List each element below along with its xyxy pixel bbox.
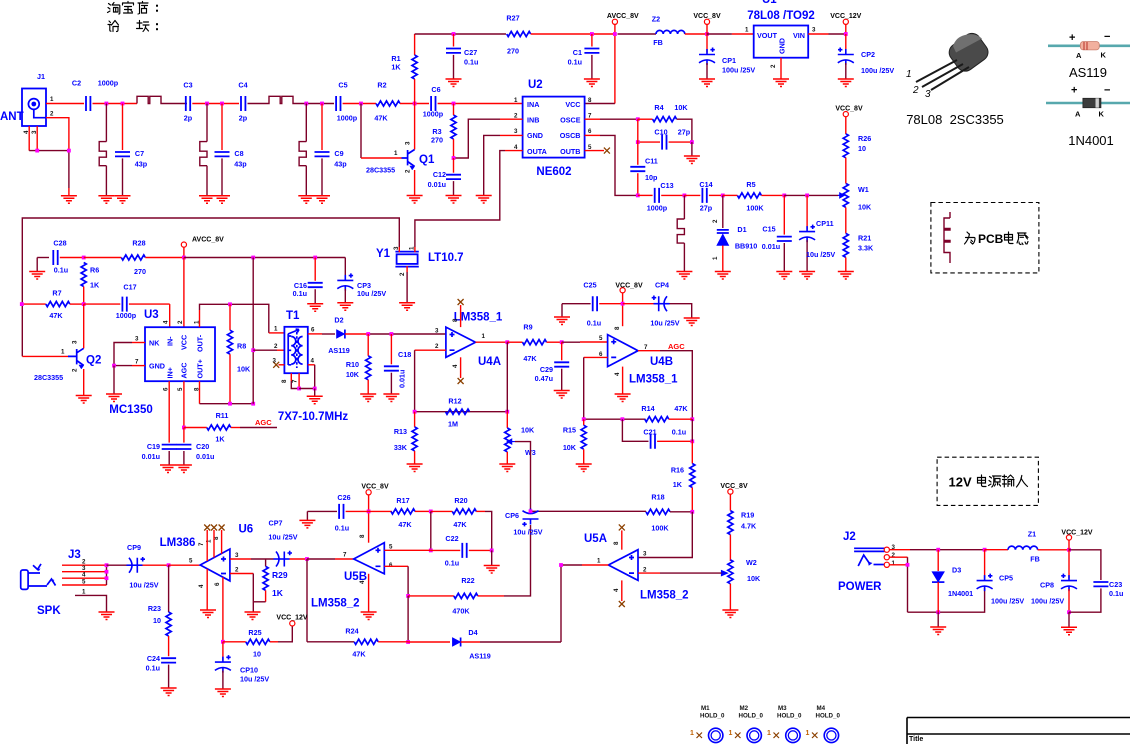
wire IF line left (Y1 pin3 to Q2 stage): [22, 218, 399, 356]
svg-text:VCC_12V: VCC_12V: [276, 615, 307, 622]
svg-text:R8: R8: [237, 342, 246, 351]
svg-text:2: 2: [405, 169, 412, 173]
resistor R9: [507, 341, 522, 343]
svg-text:27p: 27p: [678, 128, 691, 137]
svg-text:8: 8: [613, 541, 620, 545]
svg-text:100u /25V: 100u /25V: [1031, 597, 1064, 606]
svg-text:43p: 43p: [234, 160, 247, 169]
svg-text:C8: C8: [234, 149, 243, 158]
no-connect X pin5 OUTB: [585, 150, 604, 152]
resistor R8: [229, 304, 231, 330]
svg-text:7: 7: [343, 552, 347, 559]
diode D2 AS119: [328, 316, 350, 356]
svg-text:R11: R11: [216, 411, 229, 420]
wire LM386 pin2: [230, 573, 253, 575]
capacitor C16: [314, 258, 316, 281]
svg-text:R17: R17: [396, 496, 409, 505]
svg-text:M3: M3: [778, 705, 787, 712]
svg-text:R19: R19: [741, 511, 754, 520]
capacitor C8: [221, 104, 223, 151]
capacitor C5: [336, 96, 340, 111]
svg-text:2: 2: [274, 343, 278, 350]
ground L5: [298, 196, 314, 204]
wire U5B pin5: [384, 549, 431, 551]
capacitor C27: [453, 34, 455, 47]
svg-text:VIN: VIN: [793, 31, 805, 40]
capacitor CP11: [806, 195, 808, 229]
svg-text:J3: J3: [68, 549, 81, 561]
diode D4 AS119: [408, 641, 450, 643]
svg-text:VCC_8V: VCC_8V: [720, 483, 748, 490]
capacitor C18: [390, 334, 392, 364]
svg-text:10u /25V: 10u /25V: [268, 533, 297, 542]
ground 78L08: [773, 79, 789, 87]
svg-text:Q2: Q2: [86, 355, 101, 367]
svg-text:D2: D2: [334, 316, 343, 325]
svg-text:HOLD_0: HOLD_0: [777, 713, 802, 720]
no-connect T1 pin3: [279, 364, 285, 366]
svg-text:R10: R10: [346, 360, 359, 369]
svg-text:OUT-: OUT-: [196, 334, 205, 352]
wire VCC pin8 NE602: [585, 103, 615, 105]
wire U4B pin4 ground: [622, 367, 624, 394]
svg-text:3: 3: [135, 336, 139, 343]
ground CP4: [684, 318, 700, 326]
svg-text:Title: Title: [909, 736, 923, 743]
ground C18: [383, 394, 399, 402]
svg-text:C27: C27: [464, 48, 477, 57]
wire to CP11: [784, 194, 838, 196]
svg-text:LM358_2: LM358_2: [311, 598, 360, 610]
resistor R5: [723, 194, 738, 196]
svg-text:3: 3: [273, 358, 277, 365]
svg-text:33K: 33K: [394, 443, 408, 452]
svg-text:CP11: CP11: [816, 219, 834, 228]
svg-text:LM358_1: LM358_1: [629, 374, 678, 386]
no-connect U5A pin4: [621, 580, 623, 601]
resistor R23: [168, 565, 170, 612]
ground T1: [314, 389, 316, 397]
svg-text:1: 1: [50, 96, 54, 103]
svg-text:0.01u: 0.01u: [428, 180, 446, 189]
power AVCC_8V: [612, 19, 617, 24]
svg-text:0.01u: 0.01u: [142, 452, 160, 461]
svg-text:47K: 47K: [398, 520, 412, 529]
resistor R15: [583, 419, 585, 425]
wire W3 wiper to CP6 node: [515, 442, 531, 512]
capacitor C28: [37, 257, 49, 259]
capacitor C22: [431, 549, 460, 551]
svg-text:R26: R26: [858, 134, 871, 143]
wire NK pin3 loop: [132, 342, 145, 344]
svg-text:0.1u: 0.1u: [335, 524, 349, 533]
svg-text:3.3K: 3.3K: [858, 244, 874, 253]
wire GND pin7: [132, 365, 145, 367]
svg-text:K: K: [1101, 51, 1107, 60]
svg-text:100K: 100K: [746, 204, 764, 213]
svg-text:10u /25V: 10u /25V: [357, 289, 386, 298]
bottom rail CP5: [908, 588, 985, 612]
svg-text:Z1: Z1: [1028, 530, 1036, 539]
ground C20: [176, 465, 192, 473]
svg-text:R6: R6: [90, 266, 99, 275]
svg-text:6: 6: [163, 387, 170, 391]
capacitor CP7: [274, 551, 293, 567]
svg-text:VCC_12V: VCC_12V: [830, 13, 861, 20]
svg-text:0.01u: 0.01u: [196, 452, 214, 461]
svg-text:2: 2: [514, 113, 518, 120]
wire U4A out: [476, 341, 508, 343]
svg-text:0.1u: 0.1u: [568, 58, 582, 67]
wire AVCC to Z2: [618, 33, 657, 35]
svg-text:10: 10: [153, 616, 161, 625]
ground D3: [937, 612, 939, 627]
svg-text:R29: R29: [272, 570, 288, 580]
svg-text:C26: C26: [337, 493, 350, 502]
svg-text:GND: GND: [527, 131, 543, 140]
svg-text:R5: R5: [746, 180, 755, 189]
svg-text:27p: 27p: [700, 204, 713, 213]
svg-text:U5A: U5A: [584, 533, 607, 545]
svg-text:10K: 10K: [521, 426, 535, 435]
wire OSCB pin6: [585, 134, 600, 136]
wire J1 bottom rail: [29, 151, 69, 188]
svg-text:2: 2: [892, 552, 896, 559]
svg-text:6: 6: [311, 327, 315, 334]
svg-text:0.47u: 0.47u: [535, 374, 553, 383]
ground Q1: [407, 196, 423, 204]
transistor Q1: [402, 141, 435, 173]
svg-text:10K: 10K: [674, 103, 688, 112]
resistor R29: [265, 559, 267, 566]
svg-text:R25: R25: [248, 628, 261, 637]
svg-text:AS119: AS119: [328, 346, 350, 355]
svg-text:7: 7: [135, 359, 139, 366]
capacitor C4: [241, 96, 245, 111]
svg-text:0.01u: 0.01u: [398, 370, 407, 388]
svg-text:Y1: Y1: [376, 248, 391, 260]
svg-text:7X7-10.7MHz: 7X7-10.7MHz: [278, 411, 349, 423]
op IC U2 NE602: [514, 79, 592, 178]
mounting hole M4: [806, 705, 841, 743]
capacitor CP5: [984, 550, 986, 579]
text taobao shop: [108, 2, 159, 15]
wire Q2 emitter to ground: [83, 369, 85, 396]
svg-text:12V: 12V: [949, 475, 972, 490]
resistor R13: [414, 412, 416, 427]
svg-text:R16: R16: [671, 466, 684, 475]
resistor R10: [367, 334, 369, 356]
resistor R22: [408, 595, 454, 597]
svg-text:CP8: CP8: [1040, 581, 1054, 590]
svg-text:VCC_12V: VCC_12V: [1061, 530, 1092, 537]
resistor R18: [531, 510, 647, 512]
inductor L2 (PCB) series: [248, 96, 335, 103]
svg-text:VCC_8V: VCC_8V: [615, 283, 643, 290]
capacitor CP3: [344, 258, 346, 279]
svg-text:HOLD_0: HOLD_0: [816, 713, 841, 720]
ground CP10: [215, 689, 231, 697]
svg-text:AS119: AS119: [1069, 65, 1107, 80]
svg-text:4: 4: [82, 572, 86, 579]
capacitor C3: [186, 96, 190, 111]
svg-text:FB: FB: [653, 38, 663, 47]
ground CP3: [337, 303, 353, 311]
svg-text:J2: J2: [843, 531, 856, 543]
svg-text:1K: 1K: [215, 435, 225, 444]
diode D3 1N4001: [937, 550, 939, 571]
wire Y1 pin stubs: [399, 247, 415, 272]
svg-text:47K: 47K: [374, 114, 388, 123]
wire R12 node: [415, 411, 508, 413]
resistor R12: [446, 409, 470, 414]
wire J1 pin1 to C2: [46, 103, 84, 105]
svg-text:IN+: IN+: [166, 367, 175, 378]
svg-text:C2: C2: [72, 79, 81, 88]
power VCC_8V R19: [728, 489, 733, 494]
svg-text:10u /25V: 10u /25V: [240, 675, 269, 684]
no-connect U5A pin8: [621, 530, 623, 549]
svg-text:R20: R20: [454, 496, 467, 505]
resistor R2: [376, 101, 400, 106]
J3 tie rail: [106, 565, 108, 585]
svg-text:IN-: IN-: [166, 336, 175, 346]
ground C12: [446, 196, 462, 204]
power VCC_8V C26: [366, 490, 371, 495]
svg-text:A: A: [1075, 110, 1081, 119]
ground C25 left: [561, 304, 563, 317]
svg-text:R9: R9: [523, 323, 532, 332]
svg-text:6: 6: [389, 562, 393, 569]
capacitor C13: [638, 194, 653, 196]
svg-text:C23: C23: [1109, 580, 1122, 589]
wire Q1 base: [360, 104, 362, 159]
svg-text:−: −: [1104, 85, 1110, 97]
svg-text:10K: 10K: [346, 370, 360, 379]
ground CP2: [838, 79, 854, 87]
svg-text:R28: R28: [132, 239, 145, 248]
wire R17/R20 node down to pin5: [430, 511, 432, 550]
svg-text:3: 3: [71, 340, 78, 344]
wire U4B pin6: [584, 356, 608, 358]
svg-text:47K: 47K: [49, 311, 63, 320]
svg-text:C19: C19: [147, 442, 160, 451]
mounting hole M2: [729, 705, 764, 743]
wire J1 pin2 down: [46, 118, 69, 151]
svg-text:2: 2: [235, 567, 239, 574]
svg-text:M1: M1: [701, 705, 710, 712]
svg-text:43p: 43p: [334, 160, 347, 169]
capacitor CP8: [1068, 550, 1070, 579]
svg-text:1: 1: [394, 150, 398, 157]
svg-text:1: 1: [514, 97, 518, 104]
capacitor C9: [321, 104, 323, 151]
resistor R17: [369, 510, 392, 512]
svg-text:OUTB: OUTB: [560, 147, 580, 156]
capacitor C12: [453, 158, 455, 173]
svg-text:2: 2: [712, 219, 719, 223]
svg-text:W2: W2: [746, 558, 757, 567]
wire U4B out AGC: [638, 350, 660, 352]
ground W3: [499, 464, 515, 472]
connector J3 SPK: [21, 549, 81, 617]
ground W2: [729, 584, 731, 610]
svg-text:C9: C9: [334, 149, 343, 158]
svg-text:C11: C11: [645, 157, 658, 166]
svg-text:28C3355: 28C3355: [366, 166, 395, 175]
power VCC_12V: [843, 19, 848, 24]
wire AGC pin5 down: [183, 381, 185, 427]
ground R10: [360, 394, 376, 402]
regulator U1 78L08: [747, 0, 815, 58]
svg-text:C28: C28: [53, 239, 66, 248]
resistor R27: [507, 31, 531, 36]
svg-text:78L08 2SC3355: 78L08 2SC3355: [906, 112, 1004, 127]
svg-text:C21: C21: [643, 428, 656, 437]
svg-text:+: +: [1071, 85, 1077, 97]
ground MC1350: [113, 366, 115, 394]
svg-text:D4: D4: [468, 628, 477, 637]
IC U3 MC1350: [109, 309, 215, 416]
T1 bottom pins: [290, 373, 292, 381]
svg-text:100u /25V: 100u /25V: [991, 597, 1024, 606]
svg-text:C25: C25: [583, 281, 596, 290]
svg-text:7: 7: [644, 344, 648, 351]
svg-text:3: 3: [235, 552, 239, 559]
ground J3: [99, 612, 115, 620]
ground R15: [576, 464, 592, 472]
wire OUT+ pin8 rail: [199, 381, 201, 404]
ground C24: [161, 688, 177, 696]
wire T1 pin4: [308, 364, 315, 366]
svg-text:7: 7: [292, 379, 299, 383]
svg-text:470K: 470K: [452, 607, 470, 616]
capacitor C14: [684, 194, 700, 196]
svg-text:1: 1: [892, 560, 896, 567]
wire C6 to NE602 INA: [438, 103, 523, 105]
svg-text:8: 8: [614, 326, 621, 330]
svg-text:C22: C22: [445, 534, 458, 543]
svg-text:1: 1: [712, 256, 719, 260]
svg-text:C5: C5: [338, 81, 347, 90]
wire OSCE pin7: [585, 118, 600, 120]
wire U5B pin4 ground: [368, 574, 370, 612]
resistor R16: [691, 419, 693, 441]
svg-text:VCC: VCC: [180, 335, 189, 350]
wire to 78L08 pin1: [707, 33, 732, 35]
wire U5A out: [582, 564, 608, 566]
svg-text:R2: R2: [377, 81, 386, 90]
svg-text:U6: U6: [239, 524, 254, 536]
svg-text:1: 1: [906, 69, 912, 80]
svg-text:R14: R14: [641, 404, 654, 413]
wire VCC pin2 MC1350: [183, 258, 185, 328]
resistor R7: [22, 303, 46, 305]
svg-text:OSCB: OSCB: [560, 131, 581, 140]
svg-text:270: 270: [431, 136, 443, 145]
svg-text:10K: 10K: [563, 443, 577, 452]
svg-text:2: 2: [399, 272, 406, 276]
svg-text:0.1u: 0.1u: [146, 664, 160, 673]
svg-text:C29: C29: [540, 365, 553, 374]
svg-text:R12: R12: [448, 397, 461, 406]
ground L6: [676, 272, 692, 280]
svg-text:C4: C4: [238, 81, 247, 90]
svg-text:PCB: PCB: [978, 232, 1004, 246]
svg-text:2: 2: [71, 368, 78, 372]
svg-text:C20: C20: [196, 442, 209, 451]
wire J2 pin1: [889, 564, 907, 566]
resistor R25: [223, 641, 246, 643]
ground LM386 pin2: [245, 612, 261, 620]
svg-text:−: −: [1104, 31, 1110, 43]
capacitor C11: [637, 119, 639, 165]
svg-text:0.1u: 0.1u: [464, 58, 478, 67]
resistor R3: [451, 115, 456, 139]
wire J1 pins 3,4: [29, 126, 37, 151]
svg-text:2p: 2p: [184, 114, 193, 123]
wire R27 to AVCC: [531, 33, 615, 35]
svg-text:OUTA: OUTA: [527, 147, 547, 156]
svg-text:M4: M4: [817, 705, 826, 712]
svg-text:VCC: VCC: [565, 100, 580, 109]
svg-text:1000p: 1000p: [337, 114, 358, 123]
svg-text:AVCC_8V: AVCC_8V: [192, 237, 224, 244]
wire U5B pin6 feedback: [384, 565, 408, 567]
svg-text:LT10.7: LT10.7: [428, 252, 464, 264]
svg-text:INA: INA: [527, 100, 539, 109]
svg-text:MC1350: MC1350: [109, 404, 152, 416]
ground C15: [776, 272, 792, 280]
wire U4A pin2: [415, 349, 446, 351]
J3 pin wires: [62, 565, 107, 585]
svg-text:R15: R15: [563, 426, 576, 435]
op-amp U6 LM386: [160, 524, 254, 589]
no-connect LM386 pins 7,1,8: [207, 530, 221, 561]
transistor Q2: [61, 340, 101, 372]
wire R3 bottom to INB: [454, 119, 501, 158]
svg-text:10u /25V: 10u /25V: [513, 528, 542, 537]
svg-text:C15: C15: [762, 225, 775, 234]
svg-text:R23: R23: [148, 604, 161, 613]
svg-text:R7: R7: [52, 289, 61, 298]
svg-text:28C3355: 28C3355: [34, 373, 63, 382]
svg-text:C10: C10: [654, 128, 667, 137]
svg-text:NE602: NE602: [536, 166, 571, 178]
svg-text:CP9: CP9: [127, 543, 141, 552]
ground L3: [98, 196, 114, 204]
ground C1: [584, 79, 600, 87]
svg-text:4: 4: [452, 364, 459, 368]
capacitor CP6: [522, 509, 538, 527]
wire U5B pin8 to VCC rail: [368, 511, 370, 542]
ground C26: [306, 511, 308, 520]
svg-text:1M: 1M: [448, 420, 458, 429]
svg-text:0.1u: 0.1u: [445, 559, 459, 568]
ground J1: [68, 188, 70, 196]
svg-text:3: 3: [812, 27, 816, 34]
ceramic filter Y1 LT10.7: [376, 246, 464, 276]
capacitor C26: [307, 510, 337, 512]
op-amp U4A LM358_1: [435, 312, 503, 369]
wire T1 pin2: [253, 349, 277, 351]
svg-text:T1: T1: [286, 310, 300, 322]
svg-text:43p: 43p: [135, 160, 148, 169]
svg-text:CP10: CP10: [240, 666, 258, 675]
shunt inductor L6 (PCB): [683, 195, 685, 219]
potentiometer W1: [838, 183, 872, 211]
svg-text:47K: 47K: [674, 404, 688, 413]
